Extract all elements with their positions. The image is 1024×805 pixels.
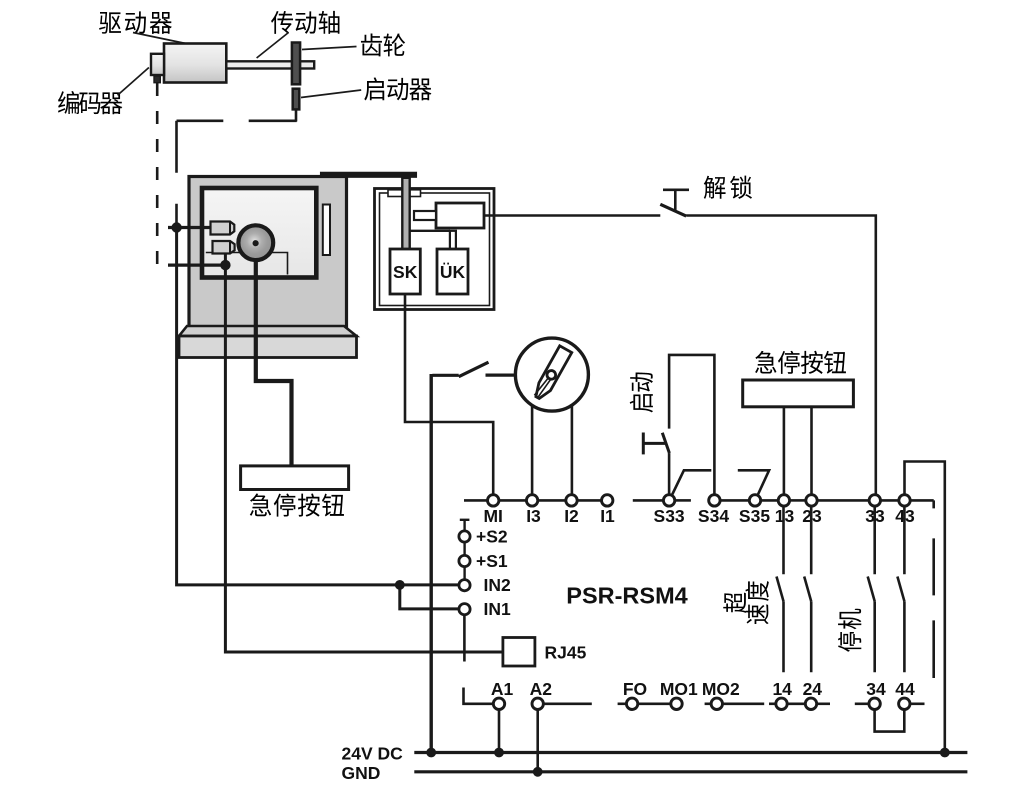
starter bar (293, 89, 300, 110)
wire A2 to GND rail (536, 709, 539, 772)
motor M1 body (164, 44, 226, 83)
door handle (323, 205, 330, 256)
wire plug2 down to RJ45 line (225, 254, 503, 653)
junction dot B (220, 260, 230, 270)
junction dot door wire rail (426, 748, 436, 758)
junction dot A (171, 222, 181, 232)
wire SK to MI (405, 294, 493, 500)
terminal 34 (869, 698, 880, 709)
wire IN1 down (463, 616, 466, 662)
start button blade (662, 433, 669, 453)
key symbol (532, 346, 572, 402)
dashed wire starter to left (177, 120, 297, 123)
label unlock 解锁 (704, 176, 752, 199)
GND rail (414, 770, 967, 773)
relay contact 33-34 (868, 506, 875, 672)
svg-text:S34: S34 (698, 506, 729, 526)
terminal A2 (532, 698, 543, 709)
terminal 24 (805, 698, 816, 709)
svg-text:I3: I3 (526, 506, 541, 526)
link +S1 IN2 (463, 567, 465, 579)
terminal IN2 (459, 580, 470, 591)
svg-text:S35: S35 (739, 506, 770, 526)
svg-text:MO1: MO1 (660, 679, 698, 699)
RJ45 box (503, 638, 535, 667)
leader line to gear (302, 47, 357, 50)
wire key switch to I3 (531, 406, 534, 501)
link to UK plunger (410, 230, 450, 232)
terminal +S2 (459, 531, 470, 542)
svg-text:SK: SK (393, 262, 418, 282)
relay contact 13-14 (777, 506, 784, 672)
start button actuator (643, 433, 666, 455)
actuator notch (388, 190, 421, 197)
svg-text:A1: A1 (491, 679, 514, 699)
branch to IN1 (400, 585, 459, 609)
label starter 启动器 (364, 77, 431, 100)
solenoid plunger (414, 211, 436, 220)
leader line to drive shaft (257, 33, 289, 59)
unlock button actuator (663, 190, 689, 210)
encoder connector block (154, 76, 160, 83)
svg-text:GND: GND (342, 763, 381, 783)
door window sill (206, 253, 288, 275)
svg-text:24: 24 (803, 679, 823, 699)
label drive shaft 传动轴 (271, 11, 339, 34)
S35 contact blade (738, 470, 769, 497)
e-stop button bar (743, 380, 854, 407)
terminal 13 (778, 495, 789, 506)
SK contact block (390, 249, 420, 294)
jumper 34-44 (875, 709, 905, 731)
UK plunger bar (450, 231, 456, 253)
svg-text:RJ45: RJ45 (545, 643, 587, 663)
terminal S34 (709, 495, 720, 506)
label e-stop 急停按钮 (machine) (250, 493, 344, 516)
svg-text:ÜK: ÜK (440, 262, 466, 282)
leader line to drive (133, 33, 191, 45)
svg-text:44: 44 (895, 679, 915, 699)
sensor plug 2 (213, 241, 235, 254)
junction dot IN2 wire (395, 580, 405, 590)
terminal I1 (602, 495, 613, 506)
terminal 44 (899, 698, 910, 709)
label overspeed 超速度 (rotated) (723, 581, 769, 624)
guard door frame (202, 188, 316, 278)
terminal row 2 wire (544, 702, 924, 705)
relay contact 23-24 (804, 506, 811, 672)
wire to sensor plug 2 (168, 264, 225, 267)
terminal FO (626, 698, 637, 709)
terminal 43 (899, 495, 910, 506)
drive shaft (226, 61, 314, 68)
terminal row 1 wire (464, 499, 934, 502)
e-stop plunger to 23 (810, 407, 813, 500)
label stop 停机 (rotated) (838, 609, 861, 652)
link +S2 +S1 (463, 543, 465, 555)
terminal MI (488, 495, 499, 506)
start button loop S34 (669, 355, 714, 500)
svg-text:14: 14 (772, 679, 792, 699)
wire solenoid to unlock switch (484, 214, 660, 217)
key switch circle (515, 338, 588, 411)
sensor plug 1 (211, 222, 235, 235)
svg-text:+S1: +S1 (476, 551, 508, 571)
svg-text:S33: S33 (654, 506, 685, 526)
terminal 23 (806, 495, 817, 506)
terminal S35 (749, 495, 760, 506)
dashed feedback wire right of 43 (932, 500, 935, 678)
wire from starter down (295, 109, 298, 121)
UK contact block (437, 249, 468, 294)
dashed encoder signal line (156, 83, 159, 268)
leader line to starter (301, 90, 361, 98)
wire wheel to e-stop box (256, 258, 292, 466)
interlock inner box (380, 193, 490, 306)
terminal 14 (776, 698, 787, 709)
door roller wheel (238, 225, 273, 260)
terminal MO1 (671, 698, 682, 709)
terminal S33 (663, 495, 674, 506)
machine base front (179, 336, 357, 358)
svg-text:34: 34 (866, 679, 886, 699)
+S2 top stub (460, 520, 470, 531)
terminal I2 (566, 495, 577, 506)
gear bar (292, 43, 300, 85)
dashed wire down to machine (175, 121, 178, 228)
label e-stop 急停按钮 (panel) (755, 351, 846, 374)
svg-text:I1: I1 (600, 506, 615, 526)
junction dot A1 rail (494, 748, 504, 758)
svg-text:MI: MI (483, 506, 502, 526)
unlock switch blade (660, 204, 686, 216)
actuator top bar (320, 172, 417, 178)
terminal IN1 (459, 604, 470, 615)
terminal I3 (526, 495, 537, 506)
label encoder 编码器 (58, 91, 122, 114)
encoder housing (151, 54, 164, 75)
S33 bypass contact (671, 470, 712, 497)
relay contact 43-44 (897, 506, 904, 672)
machine base top (179, 326, 357, 336)
label drive 驱动器 (99, 11, 172, 34)
svg-text:I2: I2 (564, 506, 579, 526)
emergency stop box (machine) (241, 466, 349, 490)
actuator rod (402, 178, 409, 253)
svg-text:IN2: IN2 (484, 575, 512, 595)
wire to sensor plug 1 (168, 226, 212, 229)
door contact (432, 362, 516, 377)
wire A1 to 24V rail (498, 709, 501, 752)
label start 启动 (rotated) (630, 372, 653, 412)
svg-text:+S2: +S2 (476, 527, 508, 547)
interlock outer box (375, 189, 495, 310)
leader line to encoder (118, 68, 149, 96)
wire A1 hook (464, 688, 496, 704)
terminal +S1 (459, 555, 470, 566)
e-stop plunger to 13 (783, 407, 786, 500)
wire down left side to IN2 (177, 228, 460, 585)
svg-text:FO: FO (623, 679, 647, 699)
wire unlock to terminal 33 (686, 216, 876, 501)
terminal MO2 (711, 698, 722, 709)
wire door contact corner down to rail (430, 374, 433, 753)
svg-text:PSR-RSM4: PSR-RSM4 (566, 583, 687, 609)
svg-text:A2: A2 (530, 679, 553, 699)
junction dot 43 loop rail (940, 748, 950, 758)
terminal 33 (869, 495, 880, 506)
24V DC rail (414, 751, 967, 754)
wire 43 up and over to rail (905, 462, 945, 753)
start button lead to S33 (668, 453, 671, 500)
wire key switch to I2 (571, 405, 574, 500)
unlock solenoid (436, 203, 484, 228)
svg-text:MO2: MO2 (702, 679, 740, 699)
label gear 齿轮 (361, 33, 405, 56)
svg-text:IN1: IN1 (484, 599, 512, 619)
terminal A1 (493, 698, 504, 709)
machine body (189, 177, 347, 328)
wheel hub dot (253, 240, 259, 246)
svg-text:24V DC: 24V DC (342, 744, 404, 764)
junction dot A2 GND (533, 767, 543, 777)
